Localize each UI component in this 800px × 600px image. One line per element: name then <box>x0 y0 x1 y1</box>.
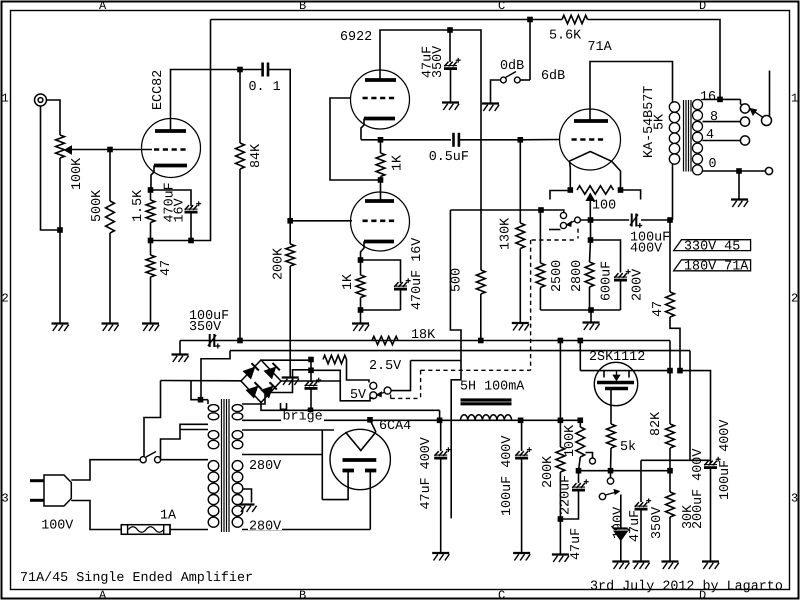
resistor 2800 <box>585 262 594 287</box>
svg-text:2.5V: 2.5V <box>369 359 401 374</box>
capacitor 600uF 200V <box>614 269 631 280</box>
svg-text:18K: 18K <box>411 328 436 343</box>
svg-text:ECC82: ECC82 <box>151 70 166 110</box>
ground 100uF right <box>702 562 719 570</box>
wire 1.5K bottom <box>150 223 152 241</box>
wire 2800 leads <box>590 240 591 310</box>
dashed link to selector <box>391 395 421 399</box>
wire 2500 top lead <box>539 210 541 263</box>
dashed link down <box>420 370 422 398</box>
svg-text:4: 4 <box>706 128 714 143</box>
ground 47uF psu <box>432 553 449 561</box>
label 71A <box>588 40 613 55</box>
svg-text:16: 16 <box>700 90 716 105</box>
PT secondary HV winding <box>232 461 243 528</box>
svg-text:C: C <box>498 0 505 13</box>
PT core <box>222 399 230 532</box>
grid label 2 right <box>791 292 798 306</box>
node fb switch <box>527 17 533 23</box>
plug 100V <box>44 475 71 506</box>
wire 1K lower leads <box>360 260 362 310</box>
svg-text:100V: 100V <box>41 519 73 534</box>
wire filament left <box>569 161 572 190</box>
svg-text:180V 71A: 180V 71A <box>684 260 749 275</box>
svg-text:C: C <box>498 589 505 600</box>
bridge diode D4 <box>261 382 276 397</box>
svg-text:3rd July 2012 by Lagarto: 3rd July 2012 by Lagarto <box>590 580 783 595</box>
label 47uF reg <box>628 510 643 542</box>
label 350V reg <box>650 507 665 539</box>
71A filament <box>569 152 612 162</box>
wire zener bottom <box>620 541 622 562</box>
wire L1 bottom tap <box>161 424 209 460</box>
label 190V <box>611 507 626 539</box>
contact 4 <box>740 136 749 145</box>
svg-text:A: A <box>99 0 107 13</box>
svg-text:47uF 400V: 47uF 400V <box>419 437 434 509</box>
resistor 5.6K <box>562 15 588 23</box>
label 16 <box>700 90 716 105</box>
node 200Kpsu <box>558 418 564 424</box>
ground OPT <box>731 200 748 208</box>
svg-text:100K: 100K <box>70 157 85 190</box>
wire OPT sec 0 <box>703 170 766 172</box>
wire to cap470 top <box>361 260 401 283</box>
ground 47uF350 <box>442 103 459 111</box>
switch bias common <box>575 217 581 223</box>
ground rail1 <box>172 355 189 363</box>
wire mains riser <box>144 381 161 457</box>
grid label 1 right <box>791 92 798 106</box>
capacitor 470uF 16V srpp <box>394 278 411 289</box>
pot wiper arrow <box>65 146 72 154</box>
OPT core <box>684 100 692 172</box>
wire heater line y210 <box>450 209 541 211</box>
wire R2 heater line <box>242 429 334 431</box>
svg-text:B: B <box>299 589 306 600</box>
6922L plate bar <box>365 199 394 203</box>
label 100K psu <box>563 424 578 457</box>
wire 130K top <box>519 140 521 223</box>
rail choke line <box>242 419 581 421</box>
tube 71A envelope <box>560 109 621 170</box>
wire 6922L cathode <box>361 242 365 261</box>
node 5V top <box>308 357 314 363</box>
grid label C bottom <box>498 589 505 600</box>
svg-text:0.5uF: 0.5uF <box>429 150 469 165</box>
wire bias bottom net <box>540 309 620 311</box>
wire 2500 bottom <box>539 288 541 311</box>
wire 47 to drain node <box>670 317 680 371</box>
node 1K top <box>378 137 384 143</box>
svg-text:2: 2 <box>2 292 9 306</box>
wire cathode rail <box>361 139 451 141</box>
wire 500K to ground <box>109 233 111 324</box>
wire 6922U grid left <box>330 98 381 180</box>
node pot bottom <box>57 227 63 233</box>
wire cathode to cap <box>151 190 192 206</box>
label 100 <box>592 199 616 214</box>
svg-text:200V: 200V <box>630 269 645 301</box>
wire reg node <box>579 470 671 472</box>
wire drain to 100uF <box>680 371 711 463</box>
wire gate div net <box>560 490 578 520</box>
wire HV bottom line <box>242 529 370 531</box>
wire feedback top rail <box>211 19 563 21</box>
bridge diode D3 <box>246 382 261 397</box>
wire 6CA4 left plate <box>322 471 348 500</box>
wire fb sw left stub <box>491 80 501 104</box>
svg-text:350V: 350V <box>650 507 665 539</box>
terminal 0 <box>765 167 772 174</box>
bridge diode D1 <box>243 363 258 378</box>
wire plug top <box>71 460 140 480</box>
fuse 1A <box>121 525 170 535</box>
wire ECC82 plate up <box>171 70 241 132</box>
svg-text:5H 100mA: 5H 100mA <box>460 380 525 395</box>
label 500K <box>90 189 105 222</box>
wire 5k bottom <box>610 448 613 471</box>
label 82K <box>649 411 664 436</box>
resistor 500 <box>476 270 485 294</box>
svg-text:350V: 350V <box>431 46 446 78</box>
ground input <box>52 324 69 332</box>
switch 190V lever <box>606 490 620 496</box>
svg-text:84K: 84K <box>249 143 264 168</box>
node 1.5K bottom <box>148 238 154 244</box>
ground 500K <box>102 324 119 332</box>
svg-text:200K: 200K <box>541 455 556 488</box>
node B+ front <box>447 27 453 33</box>
wire 200K leads <box>289 221 291 378</box>
capacitor 0.5uF <box>454 133 459 147</box>
wire 130K bottom <box>519 249 521 324</box>
label 1A <box>160 509 177 524</box>
wire heater dropper right <box>347 360 370 383</box>
wire cap470 bottom <box>400 289 402 310</box>
ECC82 plate bar <box>155 129 186 133</box>
contact 16 <box>740 104 749 113</box>
label brige <box>281 410 324 425</box>
wire gate <box>579 341 581 371</box>
contact 190V a <box>607 478 613 484</box>
wire jack to pot <box>47 100 61 135</box>
node 5V mid <box>308 368 314 374</box>
capacitor 100uF 400V bias <box>630 214 642 229</box>
svg-text:6CA4: 6CA4 <box>379 419 411 434</box>
wire 100K psu leads <box>579 420 581 470</box>
node choke out <box>518 418 524 424</box>
ground 47 <box>142 324 159 332</box>
label 500 <box>449 268 464 292</box>
node fil right <box>618 187 624 193</box>
label 100uF 400V psu <box>500 436 515 516</box>
wire HV riser <box>321 430 323 500</box>
ground 100uF psu <box>513 553 530 561</box>
svg-text:100uF 400V: 100uF 400V <box>500 436 515 516</box>
wire pot to ground <box>59 230 61 324</box>
tube 6CA4 envelope <box>330 429 390 489</box>
svg-text:200K: 200K <box>271 247 286 280</box>
wire 30K leads <box>669 471 671 562</box>
wire fil stub left <box>550 191 570 200</box>
flag 330V 45 <box>674 239 751 254</box>
capacitor 100uF 400V psu <box>515 447 532 458</box>
bridge diode D2 <box>264 363 279 378</box>
wire OPT sec tap16 <box>703 98 741 100</box>
label 5k <box>620 440 636 455</box>
svg-text:500: 500 <box>449 268 464 292</box>
capacitor 0.1uF <box>263 63 268 77</box>
node grid wire <box>107 147 113 153</box>
svg-text:330V 45: 330V 45 <box>684 239 740 254</box>
ground 30K <box>662 562 679 570</box>
svg-text:3: 3 <box>791 492 798 506</box>
svg-text:47: 47 <box>651 301 666 317</box>
wire 5V cap <box>310 360 312 382</box>
capacitor 100uF 400V right <box>704 457 721 468</box>
svg-text:1A: 1A <box>160 509 177 524</box>
label 130K <box>498 217 513 250</box>
resistor 30K <box>666 492 675 517</box>
svg-text:D: D <box>699 0 706 13</box>
wire 500 bottom lead <box>480 294 482 341</box>
svg-text:B: B <box>299 0 306 13</box>
node wiper/cath <box>588 217 594 223</box>
selector wiper <box>750 109 763 118</box>
2SK1112 channel bar <box>597 381 634 384</box>
node 71A grid <box>518 137 524 143</box>
wire to 500 dropper <box>450 30 481 270</box>
grid label B bottom <box>299 589 306 600</box>
label 100V <box>41 519 73 534</box>
71A plate bar <box>574 119 608 123</box>
PT secondary 6.3V winding <box>232 431 243 449</box>
svg-text:2800: 2800 <box>570 260 585 292</box>
grid label A bottom <box>99 589 107 600</box>
node 0 tap <box>736 168 742 174</box>
wire heater sel out <box>391 361 410 391</box>
label 30K <box>681 504 696 529</box>
resistor 47 dropper <box>666 292 675 317</box>
ground 130K <box>512 323 529 331</box>
label 47uF gate <box>569 528 584 560</box>
svg-text:6922: 6922 <box>340 30 372 45</box>
label 84K <box>249 143 264 168</box>
node gate div bottom <box>558 516 564 522</box>
grid label D bottom <box>699 589 706 600</box>
label 200K psu <box>541 455 556 488</box>
resistor 200K <box>286 244 295 266</box>
contact 5V <box>370 392 377 399</box>
wire 47uF gate top <box>578 471 580 483</box>
wire L2 top tap <box>180 429 208 431</box>
label 5V <box>350 388 366 403</box>
svg-text:1K: 1K <box>390 154 405 171</box>
node cap bottom <box>188 238 194 244</box>
svg-text:280V: 280V <box>249 459 281 474</box>
wire bridge plus <box>261 359 311 361</box>
ECC82 grid dashes <box>154 148 188 151</box>
label 0.5uF <box>429 150 469 165</box>
svg-text:2: 2 <box>791 292 798 306</box>
wire pot bottom <box>59 158 61 230</box>
choke 5H 100mA winding <box>461 415 512 421</box>
wire 47uF350 top <box>449 30 451 62</box>
tube ECC82 envelope <box>142 119 201 178</box>
wire cathode net <box>151 240 192 242</box>
plug prong bottom <box>30 499 44 502</box>
wire cathode bottom net <box>361 309 401 311</box>
wire 100uF right bottom <box>710 467 712 561</box>
2SK1112 source bar <box>605 387 628 390</box>
wire 6922U plate <box>380 30 450 80</box>
grid label B top <box>299 0 306 13</box>
label 18K <box>411 328 436 343</box>
label 4 <box>706 128 714 143</box>
PT secondary 5V winding <box>232 405 243 420</box>
wire jack ground side <box>41 106 61 230</box>
node 2500 top <box>538 207 544 213</box>
wire 6CA4 right plate <box>369 471 371 530</box>
svg-text:71A/45 Single Ended Amplifier: 71A/45 Single Ended Amplifier <box>20 571 253 586</box>
wire 84K top <box>239 70 241 144</box>
label 47uF 400V psu <box>419 437 434 509</box>
dashed link middle <box>421 369 531 371</box>
svg-text:47: 47 <box>159 260 174 276</box>
svg-text:82K: 82K <box>649 411 664 436</box>
zener diode 190V <box>612 526 630 541</box>
resistor 84K <box>236 143 245 169</box>
label 350V rail <box>189 320 221 335</box>
capacitor 47uF 350V reg <box>635 498 652 509</box>
svg-text:100K: 100K <box>563 424 578 457</box>
wire rail1 to drain <box>669 341 671 371</box>
ground 47uF reg <box>633 562 650 570</box>
wire fb to OPT tap <box>588 20 721 100</box>
resistor 82K <box>666 424 675 448</box>
resistor 1K upper <box>376 153 385 177</box>
label 100K <box>70 157 85 190</box>
switch mains <box>140 452 161 463</box>
ground zener <box>612 562 629 570</box>
wire filament right <box>612 161 621 190</box>
node 2800 top <box>588 237 594 243</box>
wire drain line <box>580 370 670 372</box>
label 350V <box>431 46 446 78</box>
wire 600uF top <box>591 240 621 273</box>
wire 1.5K top <box>150 190 152 200</box>
capacitor 47uF 400V psu <box>434 447 451 458</box>
wire cap to OPT <box>641 219 670 221</box>
label ECC82 <box>151 70 166 110</box>
wire 5V contact net <box>311 370 373 401</box>
node 6CA4 heater <box>367 417 373 423</box>
label 100uF rail <box>189 309 229 324</box>
6CA4 plate bars lower <box>343 469 377 473</box>
plug prong top <box>30 479 44 482</box>
PT primary mid winding <box>208 431 219 449</box>
wire cap bottom <box>190 212 192 241</box>
label 600uF <box>599 261 614 301</box>
wire B+ node y220 <box>580 219 629 221</box>
svg-text:220uF: 220uF <box>558 475 573 515</box>
node 100Kpsu <box>578 418 584 424</box>
wire 0.1 left <box>240 69 263 71</box>
node bias ground <box>588 307 594 313</box>
6CA4 filament V <box>345 432 376 451</box>
wire rail2 left staircase <box>201 351 230 400</box>
wire 84K bottom <box>239 169 241 341</box>
wire rail1 left end <box>179 341 181 355</box>
ground gate div <box>552 555 569 563</box>
node gate feed <box>578 338 584 344</box>
svg-text:1: 1 <box>791 92 798 106</box>
node 5V cap return <box>308 408 314 414</box>
label 280V lower <box>248 519 282 534</box>
contact 190V aux <box>586 453 596 465</box>
wire PT top to winding <box>201 400 209 404</box>
label 1.5K <box>131 189 146 222</box>
wire plug bottom <box>71 501 121 530</box>
resistor 1K lower <box>356 275 365 298</box>
capacitor 100uF 350V rail <box>208 334 220 349</box>
label 1K lower <box>341 273 356 290</box>
resistor 18K <box>372 336 398 344</box>
wire OPT primary bottom <box>672 165 674 221</box>
potentiometer 100K <box>56 135 65 158</box>
contact 8 <box>740 117 749 126</box>
svg-text:100: 100 <box>592 199 616 214</box>
resistor heater dropper <box>323 355 347 363</box>
wire 6CA4 cathode up <box>370 420 376 432</box>
flag 180V 71A <box>674 260 751 275</box>
svg-text:470uF 16V: 470uF 16V <box>410 238 425 310</box>
71A grid dashes <box>572 138 607 141</box>
switch 0dB/6dB <box>501 72 521 83</box>
label 2SK1112 <box>589 350 645 365</box>
node plate/84K <box>237 67 243 73</box>
svg-text:brige: brige <box>283 410 323 425</box>
wire zener top <box>620 495 622 529</box>
label 47uF <box>420 46 435 78</box>
6CA4 plate bar <box>343 458 377 462</box>
resistor 200K psu <box>556 447 565 472</box>
wire 500K top lead <box>109 150 111 202</box>
wire fb switch down <box>529 20 531 81</box>
wire OPT sec tap8 <box>703 121 741 123</box>
wire heater branch <box>411 360 462 362</box>
label 200V <box>630 269 645 301</box>
label 470uF 16V srpp <box>410 238 425 310</box>
label 200uF 400V <box>691 449 706 529</box>
wire bridge minus <box>261 403 440 411</box>
OPT secondary winding <box>693 100 703 175</box>
label 0 <box>709 157 717 172</box>
svg-text:350V: 350V <box>189 320 221 335</box>
capacitor 47uF gate <box>572 479 589 490</box>
label KA-54B57T <box>642 86 657 158</box>
label 2500 <box>550 260 565 292</box>
6922U plate bar <box>365 78 396 82</box>
svg-text:6dB: 6dB <box>541 69 565 84</box>
ECC82 cathode bar <box>154 164 187 168</box>
svg-text:500K: 500K <box>90 189 105 222</box>
wire bias sw upper <box>541 210 564 212</box>
svg-text:1: 1 <box>2 92 9 106</box>
heater selector lever <box>377 392 385 397</box>
wire 5V winding top <box>242 370 311 404</box>
